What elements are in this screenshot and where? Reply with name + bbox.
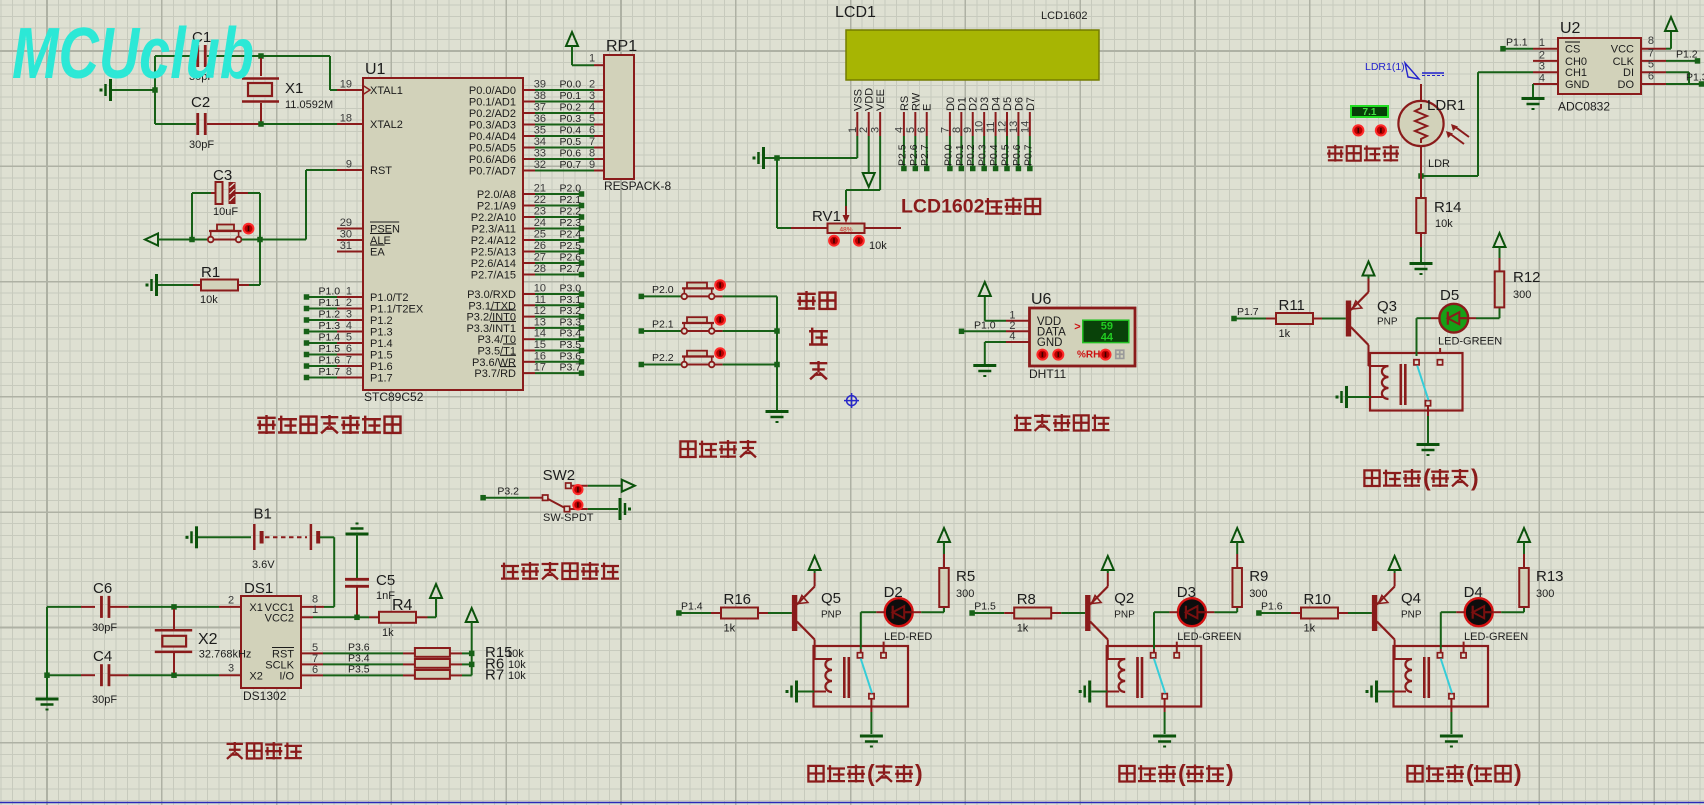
svg-text:D5: D5: [1002, 97, 1014, 111]
svg-text:CLK: CLK: [1613, 56, 1635, 68]
svg-text:C2: C2: [191, 94, 210, 111]
svg-text:1k: 1k: [382, 627, 394, 639]
svg-text:1: 1: [1539, 37, 1545, 49]
svg-text:28: 28: [534, 263, 546, 275]
svg-text:P0.6: P0.6: [560, 148, 582, 160]
svg-text:): ): [1514, 760, 1522, 786]
svg-text:): ): [1471, 465, 1479, 491]
svg-text:(: (: [867, 760, 875, 786]
svg-text:1: 1: [589, 53, 595, 65]
svg-text:33: 33: [534, 148, 546, 160]
svg-text:P1.6: P1.6: [1261, 601, 1283, 613]
svg-text:X2: X2: [249, 671, 262, 683]
svg-text:7: 7: [589, 136, 595, 148]
svg-text:LCD1602: LCD1602: [1041, 10, 1087, 22]
svg-text:DHT11: DHT11: [1029, 367, 1066, 381]
svg-text:U6: U6: [1031, 291, 1052, 308]
svg-text:E: E: [922, 104, 934, 111]
svg-text:37: 37: [534, 102, 546, 114]
svg-text:44: 44: [1101, 332, 1114, 344]
svg-text:38: 38: [534, 90, 546, 102]
svg-text:25: 25: [534, 229, 546, 241]
svg-text:XTAL1: XTAL1: [370, 85, 403, 97]
svg-text:ADC0832: ADC0832: [1558, 100, 1610, 114]
svg-text:30pF: 30pF: [189, 139, 214, 151]
svg-text:4: 4: [589, 102, 595, 114]
svg-text:(: (: [1423, 465, 1431, 491]
svg-text:R13: R13: [1536, 568, 1564, 585]
svg-text:EA: EA: [370, 247, 385, 259]
svg-text:34: 34: [534, 136, 546, 148]
svg-text:3: 3: [1539, 61, 1545, 73]
svg-text:300: 300: [956, 588, 974, 600]
svg-text:P1.2: P1.2: [319, 309, 341, 321]
svg-text:): ): [1226, 760, 1234, 786]
svg-text:DS1302: DS1302: [243, 689, 287, 703]
svg-text:MCUclub: MCUclub: [12, 14, 254, 94]
svg-text:5: 5: [1648, 59, 1654, 71]
svg-text:Q4: Q4: [1401, 590, 1421, 607]
svg-text:8: 8: [1648, 35, 1654, 47]
svg-text:P1.6: P1.6: [370, 361, 393, 373]
svg-text:SW2: SW2: [543, 467, 576, 484]
svg-text:P0.5: P0.5: [560, 136, 582, 148]
svg-text:P0.3: P0.3: [560, 113, 582, 125]
svg-text:(: (: [1178, 760, 1186, 786]
svg-text:P0.2/AD2: P0.2/AD2: [469, 108, 516, 120]
svg-text:4: 4: [1009, 331, 1015, 343]
svg-text:CH1: CH1: [1565, 67, 1587, 79]
svg-text:C6: C6: [93, 580, 112, 597]
svg-text:P3.2: P3.2: [560, 305, 582, 317]
svg-text:I/O: I/O: [279, 671, 294, 683]
svg-text:P3.7/RD: P3.7/RD: [474, 368, 516, 380]
svg-text:P2.7: P2.7: [919, 144, 931, 166]
svg-text:P0.4/AD4: P0.4/AD4: [469, 131, 516, 143]
svg-text:6: 6: [312, 664, 318, 676]
svg-text:P2.6: P2.6: [908, 144, 920, 166]
svg-text:RESPACK-8: RESPACK-8: [604, 179, 671, 193]
svg-text:P3.3/INT1: P3.3/INT1: [466, 323, 516, 335]
svg-text:P2.1: P2.1: [652, 319, 674, 331]
svg-text:7: 7: [346, 355, 352, 367]
svg-text:R11: R11: [1279, 297, 1305, 314]
svg-text:P1.7: P1.7: [319, 366, 341, 378]
svg-text:C5: C5: [376, 572, 395, 589]
svg-text:18: 18: [340, 113, 352, 125]
svg-text:P1.4: P1.4: [370, 338, 393, 350]
svg-text:RW: RW: [910, 92, 922, 111]
svg-text:LDR: LDR: [1428, 158, 1450, 170]
svg-text:P1.7: P1.7: [1237, 306, 1259, 318]
svg-text:30pF: 30pF: [92, 694, 117, 706]
svg-text:P0.6: P0.6: [1011, 144, 1023, 166]
svg-text:D7: D7: [1025, 97, 1037, 111]
svg-text:1k: 1k: [724, 623, 736, 635]
svg-text:6: 6: [346, 343, 352, 355]
svg-text:P3.7: P3.7: [560, 362, 582, 374]
svg-text:29: 29: [340, 217, 352, 229]
svg-text:GND: GND: [1037, 337, 1063, 349]
svg-text:P0.3: P0.3: [977, 144, 989, 166]
svg-text:P3.4: P3.4: [560, 328, 582, 340]
svg-text:P2.4/A12: P2.4/A12: [471, 235, 516, 247]
svg-text:32.768kHz: 32.768kHz: [199, 649, 252, 661]
svg-text:P2.5: P2.5: [896, 144, 908, 166]
svg-text:Q2: Q2: [1114, 590, 1134, 607]
svg-text:D1: D1: [956, 97, 968, 111]
svg-text:VSS: VSS: [852, 89, 864, 111]
svg-text:P1.1/T2EX: P1.1/T2EX: [370, 304, 424, 316]
svg-text:21: 21: [534, 183, 546, 195]
svg-text:1: 1: [346, 286, 352, 298]
svg-text:19: 19: [340, 79, 352, 91]
svg-text:P3.6: P3.6: [560, 350, 582, 362]
svg-text:P1.2: P1.2: [1676, 49, 1698, 61]
svg-text:R4: R4: [392, 597, 413, 614]
svg-text:P0.7/AD7: P0.7/AD7: [469, 166, 516, 178]
svg-text:11: 11: [535, 294, 546, 306]
svg-text:P1.4: P1.4: [681, 601, 703, 613]
svg-text:10k: 10k: [200, 294, 218, 306]
svg-text:P1.1: P1.1: [319, 297, 341, 309]
svg-text:300: 300: [1536, 588, 1554, 600]
svg-text:P1.5: P1.5: [370, 350, 393, 362]
svg-text:RST: RST: [370, 165, 392, 177]
svg-text:D2: D2: [884, 584, 903, 601]
svg-text:4: 4: [1539, 73, 1545, 85]
svg-text:R10: R10: [1304, 591, 1332, 608]
svg-text:P2.7/A15: P2.7/A15: [471, 270, 516, 282]
svg-text:3: 3: [589, 90, 595, 102]
svg-text:11.0592M: 11.0592M: [285, 99, 333, 111]
svg-text:LDR1: LDR1: [1427, 97, 1465, 114]
svg-text:P1.1: P1.1: [1506, 37, 1528, 49]
svg-text:LED-GREEN: LED-GREEN: [1464, 631, 1528, 643]
svg-text:DO: DO: [1618, 79, 1635, 91]
svg-text:LCD1602: LCD1602: [901, 196, 985, 218]
svg-text:PNP: PNP: [1114, 610, 1135, 621]
svg-text:P0.2: P0.2: [965, 144, 977, 166]
svg-text:P1.0: P1.0: [319, 286, 341, 298]
svg-text:D0: D0: [945, 97, 957, 111]
svg-text:P1.0/T2: P1.0/T2: [370, 292, 409, 304]
svg-text:CS: CS: [1565, 44, 1580, 56]
svg-text:P3.0/RXD: P3.0/RXD: [467, 289, 516, 301]
svg-text:STC89C52: STC89C52: [364, 390, 424, 404]
svg-text:P0.0: P0.0: [560, 79, 582, 91]
svg-text:3: 3: [228, 663, 234, 675]
svg-text:P0.0/AD0: P0.0/AD0: [469, 85, 516, 97]
svg-text:5: 5: [589, 113, 595, 125]
svg-text:DS1: DS1: [244, 580, 273, 597]
svg-text:2: 2: [589, 79, 595, 91]
svg-text:8: 8: [346, 366, 352, 378]
svg-text:13: 13: [534, 316, 546, 328]
svg-text:LED-GREEN: LED-GREEN: [1438, 336, 1502, 348]
svg-text:RV1: RV1: [812, 208, 841, 225]
svg-text:P0.1: P0.1: [954, 144, 966, 166]
svg-text:2: 2: [228, 595, 234, 607]
svg-text:P2.2: P2.2: [560, 206, 582, 218]
svg-text:300: 300: [1249, 588, 1267, 600]
svg-text:17: 17: [534, 362, 546, 374]
svg-text:X1: X1: [249, 602, 262, 614]
svg-text:1: 1: [312, 604, 318, 616]
svg-text:7.1: 7.1: [1363, 107, 1377, 118]
svg-text:10k: 10k: [1435, 218, 1453, 230]
svg-text:LCD1: LCD1: [835, 4, 876, 21]
svg-text:8: 8: [589, 148, 595, 160]
svg-text:P2.6: P2.6: [560, 252, 582, 264]
svg-text:R12: R12: [1513, 269, 1541, 286]
svg-text:10uF: 10uF: [213, 206, 238, 218]
svg-text:1k: 1k: [1017, 623, 1029, 635]
svg-text:R8: R8: [1017, 591, 1036, 608]
svg-text:RP1: RP1: [606, 38, 637, 55]
svg-text:P3.3: P3.3: [560, 316, 582, 328]
svg-text:B1: B1: [254, 506, 272, 523]
svg-text:VCC: VCC: [1611, 44, 1634, 56]
svg-text:P0.6/AD6: P0.6/AD6: [469, 154, 516, 166]
svg-text:1k: 1k: [1279, 328, 1291, 340]
svg-text:RS: RS: [899, 96, 911, 111]
svg-text:5: 5: [346, 332, 352, 344]
svg-text:14: 14: [534, 328, 546, 340]
svg-text:P1.3: P1.3: [1686, 72, 1704, 84]
svg-text:>: >: [1074, 321, 1080, 333]
svg-text:VEE: VEE: [875, 89, 887, 111]
svg-text:P3.2: P3.2: [497, 486, 519, 498]
svg-text:P3.5: P3.5: [348, 663, 370, 675]
svg-text:P0.4: P0.4: [560, 125, 582, 137]
svg-text:C4: C4: [93, 648, 112, 665]
svg-text:2: 2: [346, 297, 352, 309]
svg-text:32: 32: [534, 159, 546, 171]
svg-text:LED-GREEN: LED-GREEN: [1177, 631, 1241, 643]
svg-text:CH0: CH0: [1565, 56, 1587, 68]
svg-text:PNP: PNP: [821, 610, 842, 621]
svg-text:3: 3: [346, 309, 352, 321]
svg-text:P2.3/A11: P2.3/A11: [472, 224, 516, 236]
svg-text:2: 2: [1539, 49, 1545, 61]
svg-text:P2.4: P2.4: [560, 229, 582, 241]
svg-text:P0.5/AD5: P0.5/AD5: [469, 143, 516, 155]
svg-text:P0.7: P0.7: [560, 159, 582, 171]
svg-text:6: 6: [589, 125, 595, 137]
svg-text:P0.2: P0.2: [560, 102, 582, 114]
svg-text:35: 35: [534, 125, 546, 137]
svg-text:P0.1/AD1: P0.1/AD1: [469, 97, 516, 109]
svg-text:9: 9: [346, 159, 352, 171]
svg-text:1k: 1k: [1304, 623, 1316, 635]
svg-text:D4: D4: [1464, 584, 1483, 601]
svg-text:U2: U2: [1560, 20, 1581, 37]
svg-text:PNP: PNP: [1401, 610, 1422, 621]
svg-text:P2.5/A13: P2.5/A13: [471, 247, 516, 259]
svg-text:D5: D5: [1440, 287, 1459, 304]
svg-text:10: 10: [534, 283, 546, 295]
svg-text:P1.3: P1.3: [319, 320, 341, 332]
svg-text:P1.7: P1.7: [370, 373, 393, 385]
svg-text:LDR1(1): LDR1(1): [1365, 61, 1405, 73]
svg-text:D2: D2: [968, 97, 980, 111]
svg-text:XTAL2: XTAL2: [370, 119, 403, 131]
svg-text:P2.3: P2.3: [560, 217, 582, 229]
svg-text:P2.5: P2.5: [560, 240, 582, 252]
svg-text:X2: X2: [198, 631, 218, 648]
svg-text:P3.5: P3.5: [560, 339, 582, 351]
svg-text:16: 16: [534, 350, 546, 362]
svg-text:12: 12: [534, 305, 546, 317]
svg-text:P1.3: P1.3: [370, 327, 393, 339]
svg-text:VCC2: VCC2: [265, 613, 294, 625]
svg-text:23: 23: [534, 206, 546, 218]
svg-text:DI: DI: [1623, 67, 1634, 79]
svg-text:31: 31: [340, 240, 352, 252]
svg-text:%RH: %RH: [1077, 350, 1100, 361]
svg-text:R1: R1: [201, 264, 220, 281]
svg-text:P0.5: P0.5: [1000, 144, 1012, 166]
svg-text:27: 27: [534, 252, 546, 264]
svg-text:SW-SPDT: SW-SPDT: [543, 512, 594, 524]
svg-text:R7: R7: [485, 666, 504, 683]
svg-text:P2.1: P2.1: [560, 194, 582, 206]
svg-text:P2.1/A9: P2.1/A9: [477, 201, 516, 213]
svg-text:R14: R14: [1434, 199, 1462, 216]
svg-text:26: 26: [534, 240, 546, 252]
svg-text:30: 30: [340, 229, 352, 241]
svg-text:P3.0: P3.0: [560, 283, 582, 295]
svg-text:39: 39: [534, 79, 546, 91]
svg-text:300: 300: [1513, 289, 1531, 301]
svg-text:4: 4: [346, 320, 352, 332]
svg-text:GND: GND: [1565, 79, 1590, 91]
svg-text:P1.5: P1.5: [974, 601, 996, 613]
svg-text:P1.4: P1.4: [319, 332, 341, 344]
svg-text:PNP: PNP: [1377, 317, 1398, 328]
svg-text:P2.2: P2.2: [652, 352, 674, 364]
svg-text:D3: D3: [1177, 584, 1196, 601]
svg-text:22: 22: [534, 194, 546, 206]
svg-text:6: 6: [1648, 71, 1654, 83]
svg-text:): ): [915, 760, 923, 786]
svg-text:P0.4: P0.4: [988, 144, 1000, 166]
svg-text:R9: R9: [1249, 568, 1268, 585]
svg-text:30pF: 30pF: [92, 622, 117, 634]
svg-text:9: 9: [589, 159, 595, 171]
svg-text:3.6V: 3.6V: [252, 559, 275, 571]
svg-text:R5: R5: [956, 568, 975, 585]
svg-text:Q5: Q5: [821, 590, 841, 607]
svg-text:P2.0: P2.0: [560, 183, 582, 195]
svg-text:24: 24: [534, 217, 546, 229]
svg-text:15: 15: [534, 339, 546, 351]
svg-text:P0.1: P0.1: [560, 90, 582, 102]
svg-text:P2.2/A10: P2.2/A10: [471, 212, 516, 224]
svg-text:P3.1: P3.1: [560, 294, 582, 306]
svg-text:P2.7: P2.7: [560, 263, 582, 275]
svg-text:P1.2: P1.2: [370, 315, 393, 327]
svg-text:7: 7: [1648, 47, 1654, 59]
svg-text:D4: D4: [991, 97, 1003, 111]
svg-text:P0.0: P0.0: [942, 144, 954, 166]
svg-text:P2.6/A14: P2.6/A14: [471, 258, 516, 270]
svg-text:R16: R16: [724, 591, 752, 608]
svg-text:10k: 10k: [508, 670, 526, 682]
svg-text:X1: X1: [285, 80, 303, 97]
svg-text:VDD: VDD: [864, 88, 876, 111]
svg-text:D6: D6: [1013, 97, 1025, 111]
svg-text:(: (: [1466, 760, 1474, 786]
svg-text:10k: 10k: [869, 240, 887, 252]
svg-text:48%: 48%: [839, 227, 852, 234]
svg-text:P0.7: P0.7: [1022, 144, 1034, 166]
svg-text:P2.0: P2.0: [652, 284, 674, 296]
svg-text:P0.3/AD3: P0.3/AD3: [469, 120, 516, 132]
svg-text:D3: D3: [979, 97, 991, 111]
svg-text:Q3: Q3: [1377, 298, 1397, 315]
svg-text:P1.6: P1.6: [319, 355, 341, 367]
svg-text:36: 36: [534, 113, 546, 125]
svg-text:LED-RED: LED-RED: [884, 631, 932, 643]
svg-text:P1.5: P1.5: [319, 343, 341, 355]
svg-text:P2.0/A8: P2.0/A8: [477, 189, 516, 201]
svg-text:U1: U1: [365, 61, 386, 78]
